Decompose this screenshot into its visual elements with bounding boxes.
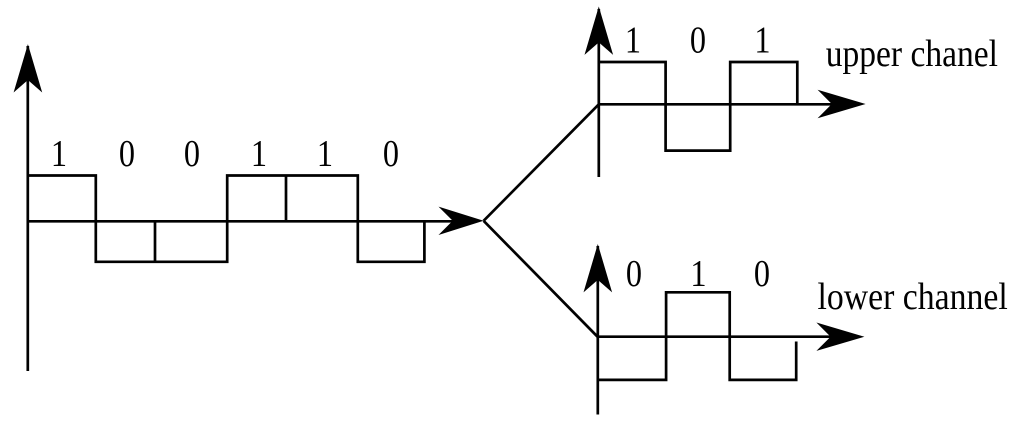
svg-text:1: 1 (625, 19, 641, 61)
left waveform divider between the two 0 bits (154, 221, 157, 261)
svg-text:1: 1 (754, 19, 770, 61)
left horizontal baseline (28, 220, 465, 223)
left waveform 1 0 0 1 1 0 (28, 176, 425, 262)
diagonal wire to upper channel (484, 104, 599, 221)
lower axis arrowhead (up) (584, 244, 613, 292)
svg-text:1: 1 (317, 133, 333, 175)
svg-text:1: 1 (51, 133, 67, 175)
lower waveform 0 1 0 (598, 292, 796, 380)
left waveform divider between the two 1 bits (285, 176, 288, 222)
upper baseline arrowhead (right) (818, 90, 866, 118)
left axis arrowhead (up) (14, 44, 43, 92)
lower horizontal baseline (598, 335, 847, 338)
svg-text:lower channel: lower channel (818, 276, 1008, 318)
svg-text:0: 0 (383, 133, 399, 175)
svg-text:0: 0 (184, 133, 200, 175)
upper axis arrowhead (up) (585, 7, 614, 55)
diagonal wire to lower channel (484, 221, 598, 337)
svg-text:1: 1 (251, 133, 267, 175)
split arrowhead (right) (439, 207, 484, 235)
svg-text:upper chanel: upper chanel (826, 33, 998, 75)
upper horizontal baseline (599, 103, 848, 106)
svg-text:0: 0 (754, 253, 770, 295)
svg-text:0: 0 (119, 133, 135, 175)
svg-text:0: 0 (690, 19, 706, 61)
svg-text:0: 0 (626, 253, 642, 295)
svg-text:1: 1 (690, 253, 706, 295)
upper vertical axis (597, 9, 600, 177)
lower vertical axis (596, 246, 599, 415)
upper waveform 1 0 1 (599, 62, 798, 151)
left vertical axis (26, 46, 29, 371)
lower baseline arrowhead (right) (816, 323, 864, 351)
